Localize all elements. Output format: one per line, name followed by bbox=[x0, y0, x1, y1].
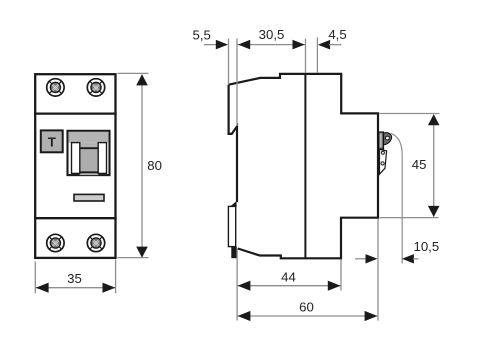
dim 35 extension left bbox=[34, 262, 36, 294]
test button T bbox=[41, 130, 63, 152]
front view body bbox=[35, 74, 115, 258]
clip travel arc and extension bbox=[391, 133, 403, 263]
dim 30.5 arrow right bbox=[293, 40, 305, 50]
dim 45 extension top bbox=[380, 113, 440, 115]
dim 60 arrow right bbox=[365, 311, 378, 321]
side view back upper claw bbox=[229, 85, 237, 202]
dim 45 line bbox=[433, 115, 435, 217]
dim 45 extension bottom bbox=[380, 217, 439, 219]
front clip lower bracket bbox=[380, 149, 387, 174]
dim 60 arrow left bbox=[238, 311, 251, 321]
toggle bottom gray strip bbox=[80, 173, 99, 175]
dim 5.5 extension left bbox=[228, 39, 230, 85]
dim 80 arrow down bbox=[136, 247, 148, 258]
toggle switch outer frame bbox=[68, 131, 110, 175]
front view divider top bbox=[34, 112, 117, 114]
svg-text:4,5: 4,5 bbox=[328, 27, 346, 42]
rail clip triangle marker bbox=[230, 201, 237, 207]
dim 44 line bbox=[237, 285, 341, 287]
side view outline bbox=[229, 74, 378, 258]
toggle handle bottom line bbox=[79, 171, 99, 173]
svg-text:44: 44 bbox=[281, 270, 296, 285]
front clip ear lobe bbox=[384, 133, 392, 145]
front clip bracket hole 2 bbox=[381, 162, 384, 165]
front clip ear hole bbox=[386, 136, 390, 140]
dim 35 arrow left bbox=[36, 283, 49, 293]
front clip bracket hole 1 bbox=[381, 151, 384, 154]
dim 4.5 leader bbox=[329, 44, 342, 46]
front clip dark bar bbox=[378, 132, 383, 149]
side view internal vertical line bbox=[304, 74, 306, 258]
dim 5.5 arrow bbox=[216, 40, 228, 50]
svg-text:45: 45 bbox=[412, 157, 427, 172]
svg-text:T: T bbox=[48, 134, 56, 149]
toggle gray mid bbox=[80, 143, 99, 149]
toggle gray top band bbox=[69, 132, 109, 143]
dim 4.5 extension right bbox=[316, 38, 318, 74]
dim 30.5 arrow left bbox=[238, 40, 250, 50]
screw top-right bbox=[87, 79, 104, 96]
screw top-left bbox=[47, 79, 64, 96]
dim 30.5 line bbox=[237, 44, 306, 46]
dim 80 line bbox=[141, 75, 143, 257]
toggle handle top line bbox=[79, 147, 99, 149]
screw bottom-right bbox=[87, 234, 104, 251]
dim 35 line bbox=[36, 287, 115, 289]
toggle white bar left bbox=[72, 143, 80, 174]
dim 44 extension mid bbox=[340, 260, 342, 291]
dim 10.5 leader right bbox=[413, 258, 419, 260]
dim 60 extension right bbox=[377, 219, 379, 321]
svg-text:30,5: 30,5 bbox=[259, 27, 285, 42]
toggle handle bbox=[80, 148, 99, 172]
svg-text:10,5: 10,5 bbox=[414, 239, 440, 254]
dim 80 extension top bbox=[118, 72, 149, 74]
svg-text:5,5: 5,5 bbox=[193, 28, 211, 43]
screw bottom-left bbox=[47, 234, 64, 251]
rail clip slider bbox=[228, 206, 235, 246]
toggle white bar right bbox=[98, 143, 106, 174]
rail clip black foot bbox=[231, 247, 237, 258]
dim 60 extension left bbox=[236, 248, 238, 321]
indicator window bbox=[74, 194, 104, 201]
dim 10.5 arrow right bbox=[402, 254, 414, 263]
dim 35 extension right bbox=[115, 260, 117, 294]
front view divider bottom bbox=[34, 217, 117, 219]
svg-text:80: 80 bbox=[147, 158, 162, 173]
svg-text:35: 35 bbox=[67, 271, 82, 286]
dim 80 arrow up bbox=[136, 74, 148, 85]
dim 60 line bbox=[237, 315, 378, 317]
dim 4.5 extension left bbox=[305, 39, 307, 74]
svg-text:60: 60 bbox=[299, 299, 314, 314]
dim 5.5 extension right bbox=[236, 39, 238, 127]
dim 10.5 leader left bbox=[355, 258, 367, 260]
dim 80 extension bottom bbox=[118, 257, 149, 259]
dim 35 arrow right bbox=[103, 283, 116, 293]
dim 44 arrow right bbox=[328, 281, 341, 291]
dim 10.5 arrow left bbox=[366, 254, 378, 263]
front clip bar highlight bbox=[380, 134, 382, 148]
dim 45 arrow up bbox=[428, 114, 440, 125]
dim 5.5 leader bbox=[204, 44, 227, 46]
dim 4.5 arrow bbox=[318, 40, 330, 50]
dim 45 arrow down bbox=[428, 206, 440, 217]
dim 44 arrow left bbox=[238, 281, 251, 291]
